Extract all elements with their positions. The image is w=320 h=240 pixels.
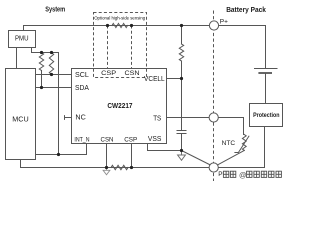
wire R1 lead to SDA <box>41 71 43 88</box>
svg-text:CSN: CSN <box>101 137 114 144</box>
svg-text:VSS: VSS <box>148 136 162 143</box>
dashed CSP link <box>107 26 109 69</box>
resistor low-side sense <box>111 165 128 169</box>
Protection box <box>250 104 283 127</box>
wire top rail to P+ <box>24 26 210 31</box>
PMU box <box>9 31 36 48</box>
wire filter column above resistor <box>181 26 183 45</box>
svg-text:System: System <box>45 4 65 13</box>
svg-text:Protection: Protection <box>253 113 280 119</box>
wire filter column resistor to cap <box>181 61 183 131</box>
IC CW2217 box <box>72 69 167 144</box>
wire cap to ground node <box>181 134 183 151</box>
svg-text:VCELL: VCELL <box>144 76 165 83</box>
wire PMU to pullup rail down to INT_N <box>32 48 59 155</box>
svg-text:MCU: MCU <box>12 114 28 123</box>
svg-text:PMU: PMU <box>15 34 29 43</box>
battery short plate <box>259 72 271 74</box>
NC stub with tick <box>65 117 72 119</box>
dashed optional high-side box <box>94 13 147 78</box>
wire SDA <box>36 87 72 89</box>
dashed CSN link <box>131 26 133 69</box>
battery long plate <box>255 68 278 70</box>
svg-text:SDA: SDA <box>75 83 89 92</box>
resistor pull-up R1 <box>39 53 43 71</box>
ground GND1 below sense rail <box>103 168 110 175</box>
resistor pull-up R2 <box>49 53 53 75</box>
svg-text:CW2217: CW2217 <box>107 101 132 110</box>
svg-text:CSP: CSP <box>101 70 116 77</box>
resistor high-side sense <box>112 23 128 27</box>
wire VSS to ground node <box>148 144 182 151</box>
svg-text:CSP: CSP <box>124 137 138 144</box>
wire INT_N <box>36 144 87 155</box>
node P- terminal <box>209 163 218 172</box>
wire CSN drop <box>106 144 108 168</box>
capacitor C1 plates <box>177 130 186 132</box>
wire ground node diagonal to P- <box>182 151 211 165</box>
wire CSP drop <box>131 144 133 168</box>
svg-text:P+: P+ <box>220 18 228 25</box>
svg-text:Optional high-side sensing: Optional high-side sensing <box>94 16 145 21</box>
ground GND2 at VSS node <box>178 151 186 161</box>
svg-text:INT_N: INT_N <box>74 137 89 144</box>
MCU box <box>6 69 36 160</box>
node TS terminal <box>209 113 218 122</box>
svg-text:CSN: CSN <box>125 70 140 77</box>
wire battery negative to protection top <box>265 73 267 104</box>
svg-text:SCL: SCL <box>75 70 89 79</box>
svg-text:NTC: NTC <box>222 140 236 147</box>
wire PMU to MCU <box>16 48 18 69</box>
svg-text:NC: NC <box>75 113 85 122</box>
wire VCELL pin <box>167 78 182 80</box>
wire P+ to battery positive <box>219 26 266 69</box>
thermistor NTC arrow with foot <box>235 136 249 152</box>
wire P- to protection bottom pin <box>218 127 264 168</box>
watermark toutiao at elecfans <box>223 171 235 177</box>
svg-text:TS: TS <box>153 115 161 122</box>
wire NTC diagonal to P- <box>218 150 245 165</box>
wire SCL <box>36 74 72 76</box>
thermistor NTC zigzag <box>242 135 246 151</box>
wire TS circle to NTC <box>218 118 243 135</box>
svg-text:@: @ <box>239 171 247 180</box>
dashed battery pack boundary <box>213 11 215 182</box>
wire MCU drop and bottom rail to P- <box>21 160 210 168</box>
node P+ terminal <box>209 21 218 30</box>
resistor VCELL filter <box>179 44 183 61</box>
wire TS pin <box>167 117 210 119</box>
svg-text:Battery Pack: Battery Pack <box>226 7 266 14</box>
